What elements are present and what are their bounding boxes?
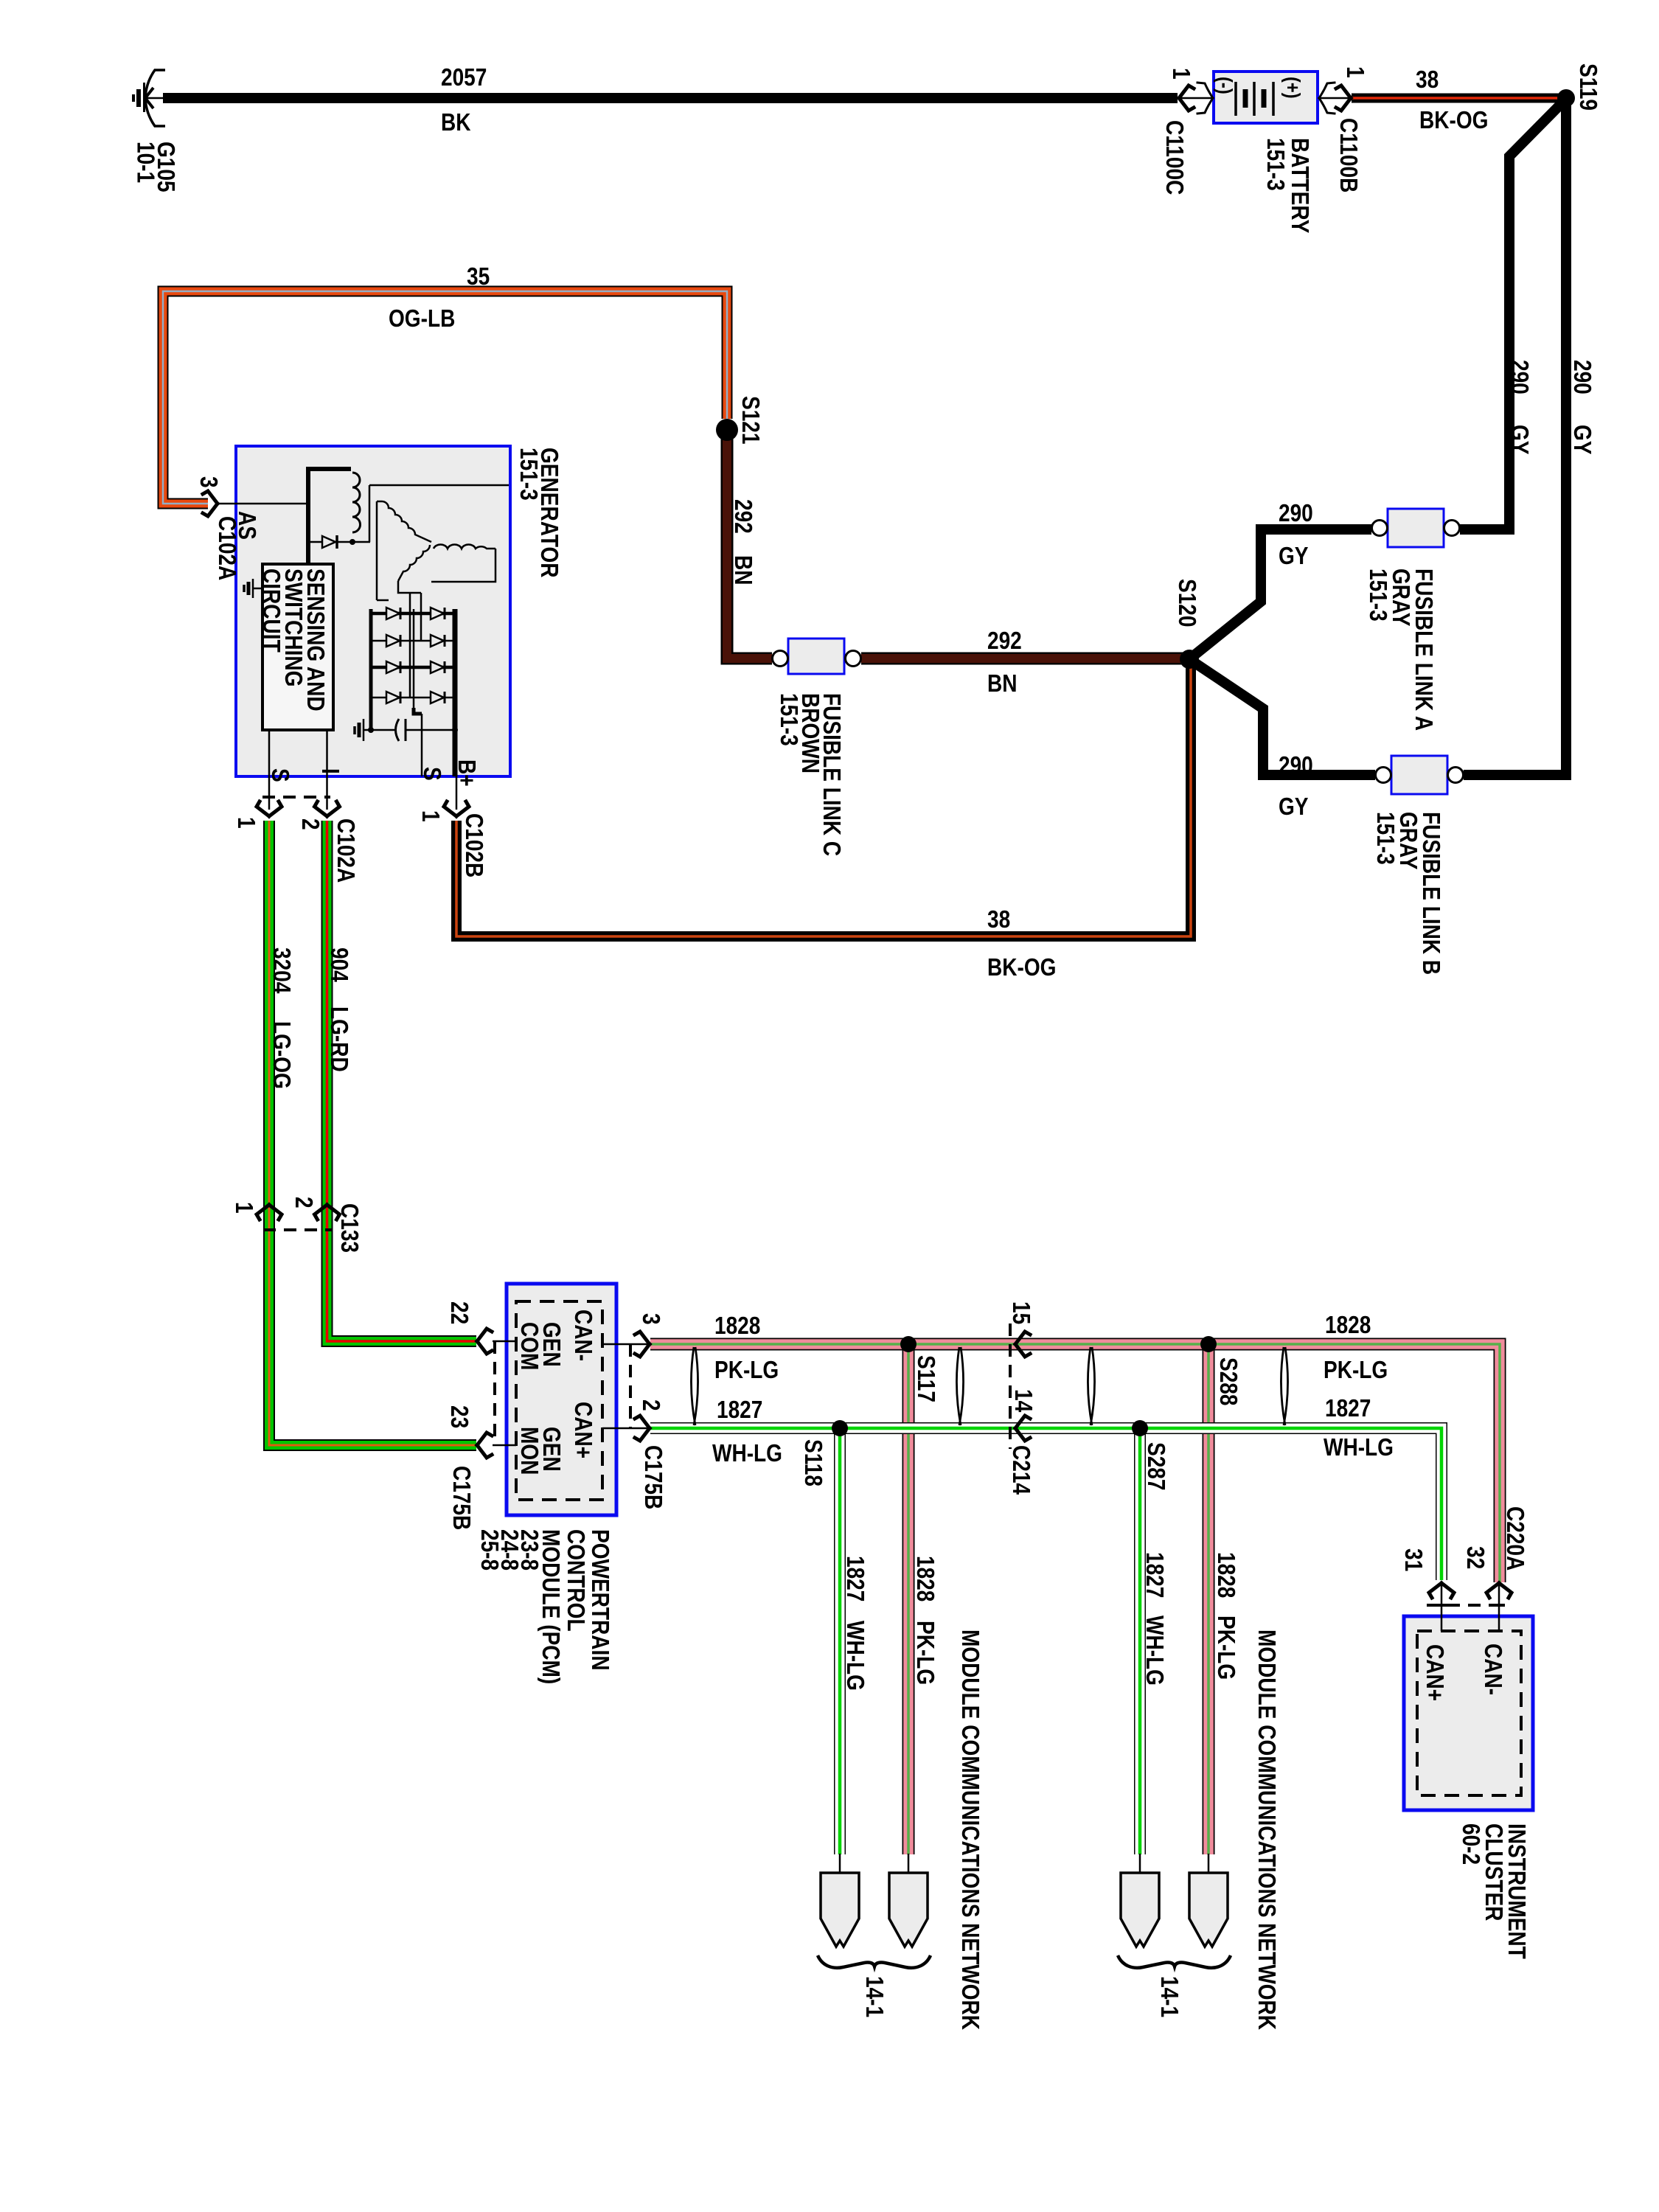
svg-text:S287: S287	[1142, 1442, 1169, 1490]
svg-text:1827: 1827	[841, 1556, 869, 1601]
svg-text:GY: GY	[1279, 793, 1309, 821]
svg-text:MODULE COMMUNICATIONS NETWORK: MODULE COMMUNICATIONS NETWORK	[956, 1630, 984, 2030]
svg-text:CAN+: CAN+	[569, 1402, 597, 1458]
svg-text:S117: S117	[912, 1355, 939, 1402]
svg-text:1: 1	[230, 1202, 257, 1214]
svg-text:2: 2	[637, 1399, 664, 1411]
svg-text:C214: C214	[1007, 1445, 1034, 1495]
svg-text:292: 292	[729, 499, 757, 534]
svg-text:WH-LG: WH-LG	[1324, 1434, 1394, 1461]
svg-text:1827: 1827	[717, 1397, 762, 1424]
svg-text:PK-LG: PK-LG	[1324, 1357, 1388, 1384]
svg-text:(+): (+)	[1281, 77, 1305, 99]
svg-text:22: 22	[445, 1301, 473, 1324]
svg-text:PK-LG: PK-LG	[911, 1621, 939, 1685]
svg-text:2057: 2057	[441, 64, 487, 91]
svg-text:290: 290	[1506, 360, 1533, 394]
svg-text:GY: GY	[1506, 425, 1533, 455]
svg-text:I: I	[316, 768, 344, 774]
svg-text:2: 2	[296, 818, 324, 830]
svg-text:BN: BN	[987, 670, 1018, 698]
svg-text:S121: S121	[737, 396, 764, 444]
svg-text:GY: GY	[1568, 425, 1596, 455]
svg-text:31: 31	[1399, 1548, 1427, 1571]
svg-text:CAN-: CAN-	[1479, 1644, 1506, 1695]
svg-text:C175B: C175B	[639, 1445, 667, 1509]
svg-text:S288: S288	[1214, 1357, 1242, 1405]
svg-text:1828: 1828	[911, 1556, 939, 1601]
svg-text:14-1: 14-1	[1155, 1976, 1183, 2017]
svg-text:C1100B: C1100B	[1335, 118, 1362, 192]
svg-text:904: 904	[325, 947, 352, 982]
svg-text:1828: 1828	[1325, 1312, 1371, 1339]
svg-text:38: 38	[1416, 66, 1439, 94]
svg-text:1828: 1828	[714, 1312, 760, 1340]
svg-text:15: 15	[1007, 1301, 1034, 1324]
svg-text:PK-LG: PK-LG	[714, 1357, 779, 1384]
svg-text:CAN+: CAN+	[1421, 1644, 1448, 1701]
svg-text:14: 14	[1009, 1389, 1037, 1412]
svg-text:GENMON: GENMON	[515, 1427, 565, 1475]
svg-text:S119: S119	[1574, 63, 1601, 111]
svg-text:MODULE COMMUNICATIONS NETWORK: MODULE COMMUNICATIONS NETWORK	[1253, 1630, 1280, 2030]
svg-text:B+: B+	[453, 759, 480, 787]
svg-text:S118: S118	[799, 1439, 827, 1486]
svg-text:2: 2	[290, 1197, 317, 1208]
svg-text:C1100C: C1100C	[1161, 120, 1188, 195]
svg-text:3: 3	[637, 1313, 664, 1325]
svg-text:BK: BK	[441, 109, 471, 136]
svg-text:GENCOM: GENCOM	[515, 1322, 565, 1370]
svg-text:S: S	[418, 767, 445, 781]
svg-text:14-1: 14-1	[860, 1976, 888, 2017]
svg-text:C175B: C175B	[448, 1466, 475, 1530]
svg-text:1827: 1827	[1141, 1552, 1168, 1598]
svg-text:BK-OG: BK-OG	[1419, 107, 1488, 134]
svg-text:C102A: C102A	[213, 516, 240, 580]
svg-text:1828: 1828	[1212, 1552, 1239, 1598]
svg-text:WH-LG: WH-LG	[712, 1440, 782, 1467]
svg-text:CAN-: CAN-	[569, 1310, 597, 1361]
svg-text:(-): (-)	[1214, 77, 1237, 94]
svg-text:1: 1	[1167, 68, 1194, 80]
svg-text:C102B: C102B	[460, 813, 487, 877]
svg-text:C133: C133	[335, 1203, 363, 1253]
svg-text:23: 23	[445, 1405, 473, 1428]
svg-text:292: 292	[987, 627, 1022, 655]
svg-text:LG-RD: LG-RD	[325, 1006, 352, 1072]
svg-text:C102A: C102A	[332, 818, 359, 883]
svg-text:S: S	[266, 768, 293, 782]
svg-text:290: 290	[1568, 360, 1596, 394]
svg-text:GY: GY	[1279, 543, 1309, 570]
svg-text:1: 1	[1341, 66, 1368, 78]
svg-text:32: 32	[1461, 1546, 1489, 1569]
svg-text:290: 290	[1279, 752, 1313, 779]
svg-text:WH-LG: WH-LG	[841, 1621, 869, 1691]
svg-text:1: 1	[417, 810, 444, 822]
svg-text:S120: S120	[1173, 579, 1200, 627]
svg-text:OG-LB: OG-LB	[389, 305, 455, 333]
svg-text:38: 38	[987, 906, 1010, 933]
svg-text:BK-OG: BK-OG	[987, 954, 1056, 981]
svg-text:290: 290	[1279, 500, 1313, 527]
svg-text:C220A: C220A	[1501, 1506, 1528, 1571]
svg-text:LG-OG: LG-OG	[268, 1021, 295, 1089]
svg-text:WH-LG: WH-LG	[1141, 1615, 1168, 1686]
svg-text:3204: 3204	[268, 947, 295, 993]
svg-text:PK-LG: PK-LG	[1212, 1615, 1239, 1680]
svg-text:35: 35	[467, 263, 490, 291]
svg-text:BN: BN	[729, 555, 757, 585]
svg-text:3: 3	[195, 476, 222, 488]
svg-text:1827: 1827	[1325, 1395, 1371, 1422]
svg-text:1: 1	[232, 817, 260, 829]
